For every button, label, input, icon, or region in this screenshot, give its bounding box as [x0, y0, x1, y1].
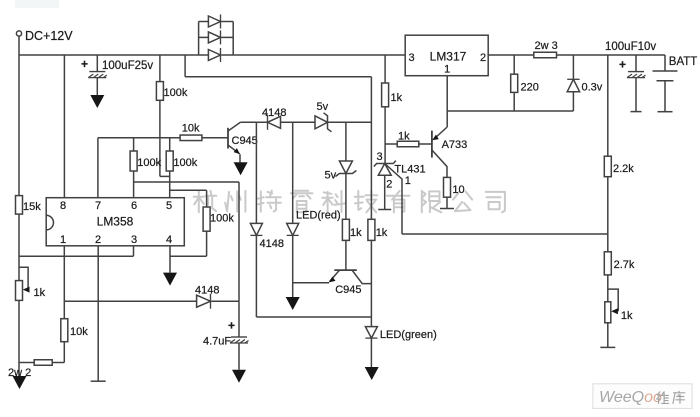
wire cap to ground: [96, 78, 98, 95]
svg-text:4148: 4148: [262, 107, 286, 119]
svg-text:2w 2: 2w 2: [8, 367, 31, 379]
wire node y182 horizontal: [134, 181, 239, 183]
ground arrow under pin4: [163, 273, 177, 286]
wire 2.2k to feedback node: [607, 177, 609, 252]
wire drop x239 to 4148 node: [238, 182, 240, 301]
svg-text:15k: 15k: [23, 201, 41, 213]
wire cap4.7 node down: [238, 301, 240, 337]
svg-text:1: 1: [60, 234, 66, 246]
wire 100k-rail down to jog: [159, 100, 161, 176]
resistor 10k horizontal body: [180, 135, 202, 141]
wire 100k-rail top stub: [159, 55, 161, 82]
wire left rail vertical x19: [18, 36, 20, 196]
wire base net horizontal y138: [98, 137, 180, 139]
resistor 1k (collector) body: [368, 219, 375, 240]
svg-text:4.7uF: 4.7uF: [203, 336, 231, 348]
wire pin3 stub: [133, 246, 135, 256]
svg-text:10k: 10k: [182, 123, 200, 135]
svg-text:3: 3: [408, 52, 414, 64]
diode 4148 (to cap) horizontal: [197, 295, 211, 307]
svg-text:C945: C945: [232, 135, 258, 147]
wire cap 100uF25v stub: [96, 55, 98, 72]
Q2 collector: [352, 270, 371, 284]
wire output rail from LM317: [488, 54, 534, 56]
diode block left bus: [198, 22, 200, 56]
wire bypass stub from rail: [184, 55, 186, 77]
resistor 1k (from rail) body: [382, 83, 389, 107]
svg-text:+: +: [619, 58, 626, 72]
svg-text:5: 5: [166, 200, 172, 212]
ground bar TL431 anode: [378, 209, 391, 211]
wire diode1 top row: [199, 21, 209, 23]
wire left rail below pot: [18, 300, 20, 376]
resistor 2w 2 body: [34, 360, 52, 366]
capacitor 100uF25v: [89, 71, 105, 73]
svg-text:1k: 1k: [34, 287, 46, 299]
wire jog pin5 to 100k-right: [170, 189, 207, 191]
wire 100uF10v stub: [635, 55, 637, 72]
diode 0.3v pointing up: [567, 78, 579, 80]
diode D2 middle: [208, 32, 220, 43]
ground bar pin2: [91, 380, 106, 382]
wire pin4 to 100k-right: [170, 255, 207, 257]
svg-text:A733: A733: [442, 139, 468, 151]
wire 10 to ground: [446, 197, 448, 208]
svg-text:C945: C945: [335, 284, 361, 296]
diode 4148 vertical: [250, 223, 262, 235]
resistor 220 body: [511, 74, 518, 92]
wire 1k-TL431 top stub: [384, 55, 386, 83]
wire bypass horizontal: [185, 76, 371, 78]
terminal DC+12V circle: [16, 31, 21, 36]
wire pin6 column above: [133, 138, 135, 151]
svg-text:2: 2: [95, 234, 101, 246]
svg-text:1k: 1k: [621, 310, 633, 322]
wire Q2 collector node down: [370, 240, 372, 326]
wire pot to ground: [607, 323, 609, 348]
resistor 1k (A733 base) body: [397, 141, 419, 147]
resistor 10 body: [444, 177, 451, 197]
zener 5v vertical bar: [335, 171, 356, 177]
svg-text:LED(green): LED(green): [380, 329, 437, 341]
pot 1k right wiper bracket: [608, 289, 618, 311]
svg-text:10: 10: [452, 184, 464, 196]
potentiometer 1k left body: [16, 281, 23, 301]
wire pin5 column below: [169, 171, 171, 198]
Q3 emitter with arrow (PNP): [434, 127, 447, 139]
wire 100k-right top stub: [206, 190, 208, 207]
svg-text:1k: 1k: [376, 227, 388, 239]
svg-text:+: +: [81, 57, 88, 71]
wire +12V rail left segment: [19, 54, 199, 56]
ground arrow under 100uF25v: [90, 95, 104, 108]
transistor Q2 C945 base bar horizontal: [334, 269, 357, 271]
svg-text:100k: 100k: [137, 157, 161, 169]
TL431 cathode bar with tails: [374, 161, 396, 167]
resistor 10k (pin1) body: [61, 319, 68, 342]
wire pin6 column below: [133, 171, 135, 198]
ground bar under battery: [658, 111, 673, 113]
svg-text:BATT: BATT: [669, 56, 698, 68]
Q2 emitter with arrow: [330, 270, 340, 282]
resistor 1k (base) body: [342, 219, 349, 240]
wire reference to feedback node: [402, 233, 608, 235]
wire 2w2 left stub: [19, 362, 34, 364]
svg-text:10k: 10k: [70, 326, 88, 338]
ground bar under 10: [440, 208, 454, 210]
svg-text:4: 4: [166, 234, 172, 246]
ground arrow under 4.7uF: [232, 370, 246, 383]
ground arrow under LED green: [365, 367, 379, 380]
watermark WeeQoo box: [593, 384, 692, 409]
wire zener net from Q1 collector: [240, 121, 267, 123]
wire cap4.7 to ground: [238, 343, 240, 370]
faint scan smudge top-left: [15, 0, 59, 8]
wire 4148-column lower: [255, 235, 257, 317]
svg-text:4148: 4148: [195, 285, 219, 297]
svg-text:3: 3: [131, 234, 137, 246]
watermark text 杭州将睿科技有限公司 (vector glyphs): [194, 196, 204, 198]
wire diode3 row stubs: [199, 54, 209, 56]
capacitor 100uF10v: [628, 71, 644, 73]
svg-text:LM358: LM358: [97, 215, 134, 229]
wire pin8 to rail: [63, 55, 65, 198]
svg-text:1k: 1k: [391, 92, 403, 104]
wire 5v-vert to 1k: [345, 174, 347, 220]
svg-text:0.3v: 0.3v: [582, 82, 603, 94]
resistor 100k (from rail) body: [156, 82, 163, 101]
svg-text:2.2k: 2.2k: [613, 163, 634, 175]
wire pin1 node to 4148: [64, 300, 196, 302]
svg-text:2.7k: 2.7k: [614, 259, 635, 271]
resistor 15k body: [16, 196, 23, 215]
TL431 reference diagonal: [385, 164, 402, 235]
ground bar under pot: [600, 346, 615, 348]
wire 1k to TL431: [384, 107, 386, 164]
watermark 维库 (vector glyphs): [657, 392, 660, 399]
Q1 emitter with arrow: [228, 145, 240, 154]
wire LEDred-column lower: [292, 235, 294, 297]
svg-text:DC+12V: DC+12V: [25, 29, 73, 43]
wire jog to pin5 column: [160, 175, 170, 177]
wire 2.7k to pot: [607, 275, 609, 302]
svg-text:3: 3: [377, 151, 383, 163]
op-amp U1 LM358 box: [46, 198, 184, 246]
svg-text:7: 7: [95, 200, 101, 212]
transistor Q1 C945 base bar: [227, 128, 229, 149]
wire diode2 mid row: [199, 36, 209, 38]
svg-text:6: 6: [131, 200, 137, 212]
wire 100k-right bottom stub: [206, 231, 208, 256]
wire 1k-A733 left stub: [385, 143, 397, 145]
ground arrow under Q1: [234, 162, 248, 175]
wire 0.3v top stub: [572, 55, 574, 79]
svg-text:1k: 1k: [398, 131, 410, 143]
wire adj node horizontal y111: [447, 110, 573, 112]
wire pin2 down: [97, 246, 99, 381]
regulator U2 LM317 box: [405, 35, 488, 75]
svg-text:+: +: [228, 319, 235, 333]
battery BATT plates: [653, 70, 678, 72]
wire 10k to C945 base: [202, 137, 228, 139]
wire +12V rail mid segment: [233, 54, 405, 56]
Q1 collector: [228, 122, 240, 131]
wire between 4148 and 5v: [281, 121, 316, 123]
Q3 collector: [432, 150, 447, 177]
svg-text:1: 1: [405, 175, 411, 187]
wire 100uF10v to ground: [635, 78, 637, 112]
svg-text:100uF10v: 100uF10v: [605, 41, 656, 53]
wire LED green to ground: [370, 338, 372, 367]
wire 1k to Q2 base: [345, 240, 347, 270]
svg-text:2: 2: [386, 179, 392, 191]
wire LEDred-column upper: [292, 122, 294, 223]
diode 4148 (pointing left): [268, 116, 281, 128]
TL431 anode wire: [384, 175, 386, 209]
svg-text:LED(red): LED(red): [296, 210, 341, 222]
capacitor 4.7uF: [231, 336, 247, 338]
resistor 100k (right of U1) body: [203, 207, 210, 231]
ground arrow under LED red: [286, 297, 300, 310]
resistor 2w 3 body: [534, 52, 557, 58]
svg-text:100uF25v: 100uF25v: [102, 60, 153, 72]
TL431 triangle: [378, 164, 391, 176]
transistor Q3 A733 base bar: [431, 131, 433, 158]
wire 2w2 right stub: [52, 362, 64, 364]
diode D3 on rail: [208, 50, 220, 61]
resistor 2.7k body: [604, 252, 611, 275]
LED green diode: [365, 327, 377, 339]
wire 1k to A733 base: [419, 143, 432, 145]
wire left-rail to pin3: [19, 255, 134, 257]
LED red diode: [287, 223, 299, 235]
LM358 notch: [46, 215, 53, 230]
wire left rail below 15k: [18, 214, 20, 281]
svg-text:WeeQoo: WeeQoo: [599, 389, 662, 406]
wire 220 bottom stub: [513, 92, 515, 111]
wire 4148-column upper: [255, 122, 257, 223]
zener 5v vertical triangle: [339, 161, 352, 174]
resistor 2.2k body: [604, 156, 611, 177]
wire battery stub: [664, 55, 666, 71]
svg-text:5v: 5v: [325, 170, 337, 182]
wire bypass vertical drop x371: [370, 77, 372, 220]
svg-text:LM317: LM317: [430, 50, 467, 64]
svg-text:5v: 5v: [317, 101, 329, 113]
pot 1k left wiper bracket: [19, 267, 28, 289]
wire 0.3v bottom stub: [572, 92, 574, 111]
wire pin7 up: [97, 138, 99, 198]
wire 2.2k column from rail: [607, 55, 609, 156]
svg-text:1: 1: [444, 64, 450, 76]
resistor 100k (pin5) body: [166, 151, 173, 171]
wire zener net right segment: [328, 121, 372, 123]
wire Q1 emitter to ground: [239, 154, 241, 162]
wire pin1 below 10k: [63, 342, 65, 363]
wire pin4 stub: [169, 246, 171, 273]
potentiometer 1k right body: [605, 302, 611, 323]
svg-text:2w 3: 2w 3: [535, 40, 558, 52]
wire battery to ground: [664, 81, 666, 112]
svg-text:220: 220: [521, 82, 539, 94]
wire Q2 emitter to LED red node: [293, 282, 329, 284]
svg-text:4148: 4148: [260, 238, 284, 250]
svg-text:100k: 100k: [164, 87, 188, 99]
svg-text:TL431: TL431: [394, 164, 425, 176]
wire pin1 down: [63, 246, 65, 319]
wire 220 top stub: [513, 55, 515, 74]
wire 5v-vert column upper: [345, 122, 347, 161]
svg-text:100k: 100k: [173, 157, 197, 169]
resistor 100k (pin6) body: [130, 151, 137, 171]
svg-text:8: 8: [60, 200, 66, 212]
svg-text:100k: 100k: [210, 213, 234, 225]
diode D1 top: [208, 16, 220, 27]
svg-text:2: 2: [480, 52, 486, 64]
svg-text:1k: 1k: [350, 227, 362, 239]
ground bar under 100uF10v: [631, 111, 642, 113]
wire output rail to battery: [557, 54, 666, 56]
zener 5v horizontal triangle: [315, 116, 328, 129]
wire pin5 column above: [169, 138, 171, 151]
ground arrow bottom-left: [13, 376, 27, 389]
wire y317 to LED green node: [256, 316, 371, 318]
diode block right bus: [232, 22, 234, 56]
zener 5v bar: [324, 113, 332, 132]
wire LM317 adj pin down: [446, 76, 448, 127]
